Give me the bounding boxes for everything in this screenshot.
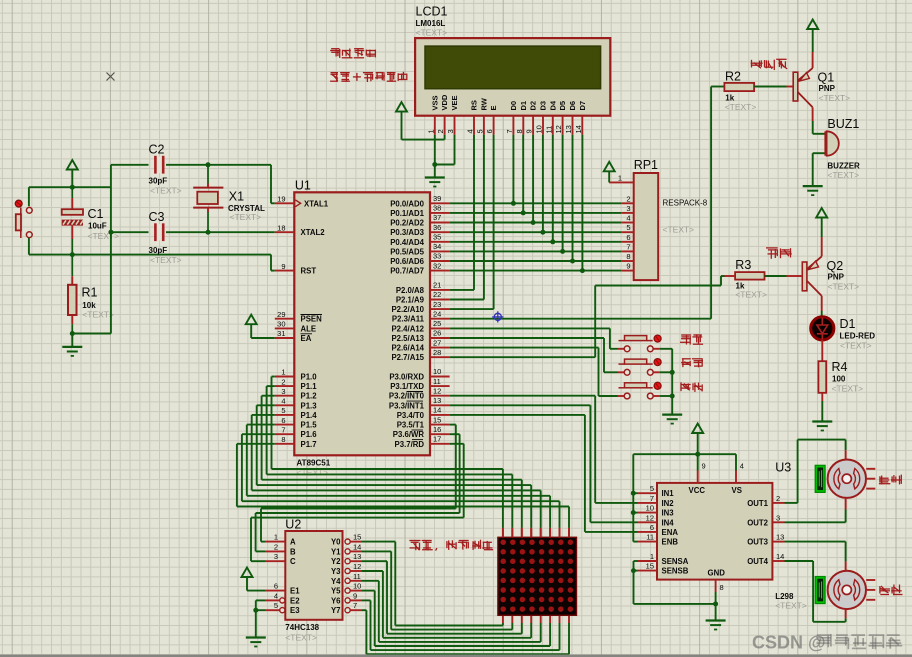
U2 right pins Y0-Y7	[345, 539, 350, 544]
capacitor C3	[111, 231, 149, 233]
wire OUT1 to M1 top	[785, 502, 798, 504]
svg-text:30pF: 30pF	[149, 246, 168, 255]
label fuwei	[681, 382, 703, 392]
svg-text:9: 9	[626, 262, 630, 271]
svg-text:Q2: Q2	[827, 259, 844, 273]
svg-text:B: B	[290, 547, 296, 556]
svg-text:LCD1: LCD1	[416, 5, 448, 19]
svg-text:19: 19	[277, 195, 285, 204]
svg-text:1: 1	[426, 129, 435, 133]
wire OUT2 to M1 bottom	[845, 498, 847, 510]
svg-text:11: 11	[433, 377, 441, 386]
svg-text:7: 7	[650, 494, 654, 503]
svg-text:Y4: Y4	[331, 577, 341, 586]
svg-text:31: 31	[277, 329, 285, 338]
svg-text:P2.3/A11: P2.3/A11	[392, 315, 425, 324]
resistor R4	[821, 340, 823, 361]
svg-text:P2.0/A8: P2.0/A8	[396, 286, 425, 295]
wire reset row	[29, 254, 271, 256]
svg-text:P3.0/RXD: P3.0/RXD	[389, 373, 424, 382]
wire P3.3 to IN4	[450, 404, 591, 406]
svg-text:D4: D4	[548, 100, 557, 110]
svg-text:R1: R1	[82, 286, 98, 300]
svg-text:9: 9	[281, 262, 285, 271]
svg-text:AT89C51: AT89C51	[297, 459, 331, 468]
svg-text:5: 5	[274, 601, 278, 610]
svg-text:7: 7	[281, 425, 285, 434]
svg-text:IN4: IN4	[662, 518, 675, 527]
svg-text:OUT4: OUT4	[747, 557, 768, 566]
RP1 pins 2-9 wires to P0 bus	[621, 202, 633, 204]
svg-text:24: 24	[433, 309, 441, 318]
svg-text:P1.2: P1.2	[301, 392, 318, 401]
wire RW to P2.1	[483, 135, 485, 300]
svg-text:R2: R2	[725, 70, 741, 84]
svg-text:Y3: Y3	[331, 567, 341, 576]
svg-text:C3: C3	[149, 210, 165, 224]
U1 pin name overlines	[301, 314, 323, 316]
label penyao	[766, 248, 792, 259]
svg-text:P0.4/AD4: P0.4/AD4	[390, 238, 424, 247]
svg-text:21: 21	[433, 281, 441, 290]
wire P2.4 to button start	[450, 327, 610, 329]
wire P2.3 to R2 buzzer drive	[450, 318, 711, 320]
svg-text:3: 3	[626, 204, 630, 213]
svg-text:RW: RW	[479, 97, 488, 110]
wire P3.7 to 138 C	[450, 443, 464, 445]
svg-text:27: 27	[433, 338, 441, 347]
wire OUT3 to M2 top	[785, 541, 846, 543]
svg-text:P3.3/INT1: P3.3/INT1	[389, 401, 425, 410]
ground LCD	[434, 165, 436, 178]
svg-text:6: 6	[485, 129, 494, 133]
svg-text:P2.7/A15: P2.7/A15	[391, 353, 424, 362]
svg-text:5: 5	[650, 484, 654, 493]
svg-text:P3.7/RD: P3.7/RD	[395, 440, 425, 449]
svg-text:IN2: IN2	[662, 499, 675, 508]
svg-text:17: 17	[433, 435, 441, 444]
push button pause 暂停	[619, 363, 625, 365]
svg-text:R4: R4	[832, 360, 848, 374]
svg-text:Y5: Y5	[331, 587, 341, 596]
wire P2.7 to R3 spray drive	[450, 356, 596, 358]
svg-text:RS: RS	[470, 100, 479, 110]
motor M2 right stubs	[866, 579, 875, 581]
svg-text:11: 11	[353, 572, 361, 581]
svg-text:15: 15	[646, 562, 654, 571]
svg-text:BUZ1: BUZ1	[827, 117, 859, 131]
svg-text:D3: D3	[539, 101, 548, 111]
svg-text:7: 7	[505, 129, 514, 133]
wire E to P2.2	[493, 135, 495, 309]
svg-text:29: 29	[277, 310, 285, 319]
U3 GND pin 8	[715, 580, 717, 592]
svg-text:3: 3	[281, 387, 285, 396]
wire	[72, 333, 111, 335]
svg-text:P1.3: P1.3	[301, 401, 318, 410]
label guoyuan	[409, 540, 493, 551]
svg-text:<TEXT>: <TEXT>	[285, 633, 317, 643]
svg-text:GND: GND	[708, 569, 726, 578]
svg-text:VDD: VDD	[440, 94, 449, 110]
ground R4	[812, 420, 832, 422]
node junction X1 bottom	[206, 230, 211, 235]
svg-text:2: 2	[274, 542, 278, 551]
svg-text:C1: C1	[88, 207, 104, 221]
svg-text:XTAL2: XTAL2	[301, 228, 326, 237]
svg-text:2: 2	[626, 194, 630, 203]
label fengmingqi	[751, 59, 788, 70]
push button start 启动	[619, 340, 625, 342]
svg-text:8: 8	[720, 583, 724, 592]
motor M2	[828, 571, 866, 609]
svg-text:<TEXT>: <TEXT>	[832, 384, 864, 394]
matrix top pin stubs	[502, 528, 504, 537]
resistor R3	[735, 272, 764, 280]
svg-text:U3: U3	[775, 461, 791, 475]
svg-text:10uF: 10uF	[88, 222, 107, 231]
svg-text:33: 33	[433, 252, 441, 261]
svg-text:D7: D7	[578, 101, 587, 111]
svg-text:1: 1	[618, 173, 622, 182]
system status labels	[330, 49, 375, 59]
svg-text:8: 8	[281, 435, 285, 444]
svg-text:37: 37	[433, 213, 441, 222]
svg-text:3: 3	[446, 129, 455, 133]
svg-text:ENB: ENB	[662, 538, 679, 547]
LCD VDD wire to power	[444, 135, 446, 140]
motor M1 rpm display	[815, 465, 825, 492]
svg-text:30: 30	[277, 320, 285, 329]
LCD display LM016L body	[415, 38, 610, 116]
svg-text:ALE: ALE	[301, 324, 317, 333]
svg-text:1: 1	[274, 533, 278, 542]
svg-text:6: 6	[281, 416, 285, 425]
svg-text:39: 39	[433, 194, 441, 203]
svg-text:13: 13	[433, 396, 441, 405]
svg-text:P0.0/AD0: P0.0/AD0	[390, 199, 424, 208]
wire VCC rail	[633, 453, 736, 455]
svg-text:12: 12	[554, 125, 563, 133]
RP1 pin 1 with power arrow	[609, 181, 634, 183]
svg-text:R3: R3	[735, 258, 751, 272]
U1 right pin stubs	[430, 202, 450, 204]
svg-text:23: 23	[433, 300, 441, 309]
svg-text:P3.1/TXD: P3.1/TXD	[390, 382, 424, 391]
svg-text:P0.5/AD5: P0.5/AD5	[390, 247, 424, 256]
svg-text:36: 36	[433, 223, 441, 232]
svg-text:SENSA: SENSA	[662, 557, 689, 566]
svg-text:5: 5	[281, 406, 285, 415]
svg-text:CSDN @: CSDN @	[752, 633, 826, 653]
svg-text:P3.2/INT0: P3.2/INT0	[389, 392, 425, 401]
transistor Q2 PNP	[821, 237, 823, 256]
svg-text:<TEXT>: <TEXT>	[840, 341, 872, 351]
svg-text:5: 5	[475, 129, 484, 133]
svg-text:P0.1/AD1: P0.1/AD1	[390, 209, 424, 218]
svg-text:12: 12	[353, 562, 361, 571]
motor M1 right stubs	[866, 468, 875, 470]
svg-text:P0.3/AD3: P0.3/AD3	[390, 228, 424, 237]
svg-text:U2: U2	[285, 518, 301, 532]
svg-text:VCC: VCC	[689, 486, 706, 495]
svg-text:28: 28	[433, 348, 441, 357]
label zhixing	[879, 475, 902, 485]
svg-text:D5: D5	[558, 101, 567, 111]
svg-text:6: 6	[274, 582, 278, 591]
svg-text:14: 14	[433, 406, 441, 415]
svg-text:25: 25	[433, 319, 441, 328]
svg-text:RP1: RP1	[634, 158, 658, 172]
wire SENSA SENSB ground	[634, 560, 638, 562]
svg-text:3: 3	[776, 513, 780, 522]
svg-text:12: 12	[433, 386, 441, 395]
svg-text:P0.2/AD2: P0.2/AD2	[390, 219, 424, 228]
resistor R1	[71, 255, 73, 277]
button ground bus	[671, 349, 673, 415]
wire RS to P2.0	[473, 135, 475, 290]
U3 right pins OUT1-4	[772, 502, 784, 504]
svg-text:ENA: ENA	[662, 528, 679, 537]
ground buzzer	[803, 185, 823, 187]
wire	[28, 238, 30, 255]
svg-text:35: 35	[433, 233, 441, 242]
svg-text:<TEXT>: <TEXT>	[819, 93, 851, 103]
svg-text:Y2: Y2	[331, 557, 341, 566]
svg-text:Q1: Q1	[818, 71, 835, 85]
ground U3	[715, 604, 717, 621]
svg-text:P1.0: P1.0	[301, 373, 318, 382]
crystal X1	[207, 165, 209, 184]
svg-text:100: 100	[832, 375, 846, 384]
svg-text:IN1: IN1	[662, 489, 675, 498]
svg-text:E1: E1	[290, 587, 300, 596]
svg-text:VS: VS	[732, 486, 742, 495]
svg-text:<TEXT>: <TEXT>	[725, 102, 757, 112]
svg-text:LED-RED: LED-RED	[840, 332, 876, 341]
svg-text:16: 16	[433, 425, 441, 434]
svg-text:PNP: PNP	[819, 84, 836, 93]
svg-text:VSS: VSS	[430, 95, 439, 110]
svg-text:P2.1/A9: P2.1/A9	[396, 296, 425, 305]
LCD VEE wire	[454, 135, 456, 165]
svg-text:IN3: IN3	[662, 509, 675, 518]
svg-text:<TEXT>: <TEXT>	[416, 28, 448, 38]
U2 left pins	[265, 541, 285, 543]
svg-text:P3.5/T1: P3.5/T1	[397, 421, 425, 430]
wire P3.4 to ENA	[450, 414, 585, 416]
wire IN1 IN3 ENB tie to VCC	[632, 454, 634, 541]
node junction vss/vee	[432, 162, 437, 167]
svg-text:<TEXT>: <TEXT>	[150, 255, 182, 265]
svg-text:D1: D1	[519, 101, 528, 111]
node junction R1 bottom	[70, 331, 75, 336]
LCD VSS wire to ground	[434, 135, 436, 165]
svg-text:P3.6/WR: P3.6/WR	[393, 430, 425, 439]
svg-text:5: 5	[626, 223, 630, 232]
svg-text:4: 4	[281, 397, 285, 406]
wires P1.0-P1.7 to dot matrix columns	[272, 376, 275, 378]
svg-text:U1: U1	[295, 179, 311, 193]
svg-text:<TEXT>: <TEXT>	[828, 282, 860, 292]
svg-text:15: 15	[433, 415, 441, 424]
origin cross marker	[107, 73, 115, 81]
node junction C3 row	[108, 230, 113, 235]
svg-text:EA: EA	[301, 334, 312, 343]
wire	[208, 231, 275, 233]
svg-text:11: 11	[646, 533, 654, 542]
svg-text:PSEN: PSEN	[301, 315, 323, 324]
wires Y0-Y7 to matrix rows	[362, 541, 395, 543]
svg-text:PNP: PNP	[828, 273, 845, 282]
origin marker	[492, 311, 503, 322]
svg-text:14: 14	[353, 542, 361, 551]
svg-text:22: 22	[433, 290, 441, 299]
svg-text:10k: 10k	[82, 301, 96, 310]
svg-text:9: 9	[702, 462, 706, 471]
svg-text:10: 10	[535, 125, 544, 133]
svg-text:11: 11	[544, 126, 553, 134]
svg-text:SENSB: SENSB	[662, 567, 689, 576]
svg-text:10: 10	[433, 367, 441, 376]
svg-text:15: 15	[353, 533, 361, 542]
svg-text:<TEXT>: <TEXT>	[150, 186, 182, 196]
svg-text:E: E	[489, 105, 498, 110]
svg-text:RST: RST	[301, 267, 317, 276]
svg-text:10: 10	[353, 582, 361, 591]
svg-text:13: 13	[776, 533, 784, 542]
wire OUT4 to M2 bottom	[785, 560, 814, 562]
svg-text:RESPACK-8: RESPACK-8	[663, 199, 708, 208]
svg-text:P1.4: P1.4	[301, 411, 318, 420]
led D1 LED-RED	[821, 311, 823, 317]
svg-text:1: 1	[281, 368, 285, 377]
svg-text:<TEXT>: <TEXT>	[663, 225, 695, 235]
svg-text:13: 13	[353, 552, 361, 561]
XTAL1 clock marker	[295, 200, 300, 207]
svg-text:P1.7: P1.7	[301, 440, 317, 449]
led dot matrix 8x8	[498, 537, 577, 615]
svg-text:P3.4/T0: P3.4/T0	[397, 411, 425, 420]
svg-text:VEE: VEE	[450, 95, 459, 110]
svg-text:7: 7	[353, 601, 357, 610]
power arrow U2 E1	[242, 568, 253, 578]
svg-text:10: 10	[646, 504, 654, 513]
svg-text:32: 32	[433, 261, 441, 270]
bottom window edge	[0, 655, 912, 657]
svg-text:P1.6: P1.6	[301, 430, 318, 439]
svg-text:Y1: Y1	[331, 547, 341, 556]
transistor Q1 PNP	[812, 52, 814, 68]
U3 left pins	[638, 492, 658, 494]
svg-text:14: 14	[776, 552, 784, 561]
svg-text:18: 18	[277, 223, 285, 232]
wire	[28, 187, 30, 206]
svg-text:Y0: Y0	[331, 538, 341, 547]
wire gnd vertical	[110, 165, 112, 334]
node junction C1 top	[70, 185, 75, 190]
svg-text:OUT3: OUT3	[747, 538, 768, 547]
svg-text:8: 8	[515, 129, 524, 133]
push-button switch (reset)	[15, 200, 22, 207]
LCD data wires D0-D7 to P0 bus	[512, 135, 514, 204]
wire P2.6 to button reset2	[450, 347, 599, 349]
svg-text:4: 4	[274, 591, 278, 600]
svg-text:26: 26	[433, 329, 441, 338]
svg-text:P0.6/AD6: P0.6/AD6	[390, 257, 424, 266]
svg-text:E3: E3	[290, 606, 300, 615]
svg-text:3: 3	[274, 552, 278, 561]
wire P3.5 to 138 A	[450, 424, 456, 426]
svg-text:74HC138: 74HC138	[285, 623, 319, 632]
motor M1	[828, 460, 866, 498]
svg-text:6: 6	[626, 233, 630, 242]
power arrow VCC (left, above C1)	[67, 160, 78, 170]
wire P2.5 to button pause	[450, 337, 604, 339]
wire P3.6 to 138 B	[450, 433, 460, 435]
svg-text:P1.1: P1.1	[301, 382, 318, 391]
U1 right overlines	[407, 391, 424, 393]
svg-text:<TEXT>: <TEXT>	[230, 212, 262, 222]
svg-text:14: 14	[574, 125, 583, 133]
label qidong	[680, 334, 703, 344]
U1 left pin stubs	[275, 202, 295, 204]
svg-text:12: 12	[646, 513, 654, 522]
svg-text:9: 9	[525, 129, 534, 133]
svg-text:OUT2: OUT2	[747, 518, 768, 527]
power arrow U3	[692, 424, 703, 434]
svg-text:P1.5: P1.5	[301, 421, 318, 430]
U3 top pins VCC VS	[697, 471, 699, 483]
svg-text:P0.7/AD7: P0.7/AD7	[390, 267, 424, 276]
resistor R2	[711, 86, 724, 88]
svg-text:<TEXT>: <TEXT>	[827, 170, 859, 180]
label zanting	[681, 359, 703, 368]
svg-text:P2.4/A12: P2.4/A12	[391, 324, 424, 333]
wire P3.2 to IN2	[450, 395, 596, 397]
LCD pin stubs and numbers	[434, 116, 436, 135]
push button reset 复位	[619, 387, 625, 389]
ground	[71, 334, 73, 347]
svg-text:D6: D6	[568, 101, 577, 111]
capacitor C1	[71, 187, 73, 198]
ground buttons	[662, 414, 682, 416]
svg-text:<TEXT>: <TEXT>	[82, 310, 114, 320]
power arrow EA	[246, 315, 257, 325]
U2 E2 E3 ground wires	[256, 599, 265, 601]
LCD screen	[425, 46, 601, 89]
svg-text:4: 4	[740, 462, 744, 471]
node junction X1 top	[206, 162, 211, 167]
wire	[29, 186, 111, 188]
wire	[208, 164, 271, 166]
svg-text:30pF: 30pF	[149, 176, 168, 185]
node junction	[70, 252, 75, 257]
svg-text:D1: D1	[840, 317, 856, 331]
ground U2	[246, 636, 266, 638]
svg-text:<TEXT>: <TEXT>	[735, 290, 767, 300]
svg-text:C: C	[290, 557, 296, 566]
svg-text:2: 2	[776, 494, 780, 503]
power arrow Q2	[816, 208, 827, 218]
svg-text:A: A	[290, 538, 296, 547]
svg-text:Y6: Y6	[331, 596, 341, 605]
svg-text:4: 4	[466, 129, 475, 133]
svg-text:P2.2/A10: P2.2/A10	[391, 305, 424, 314]
svg-text:OUT1: OUT1	[747, 499, 768, 508]
svg-text:2: 2	[281, 377, 285, 386]
svg-text:9: 9	[353, 591, 357, 600]
